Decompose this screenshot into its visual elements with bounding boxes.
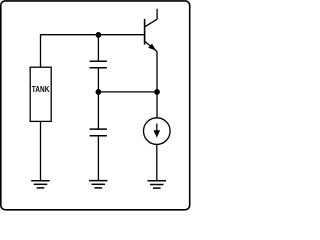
wire: current source to ground	[156, 144, 158, 180]
collector stub	[156, 9, 158, 19]
wire: tank bottom to ground	[40, 121, 42, 180]
transistor Q1	[145, 9, 158, 92]
wire: base rail from tank top corner to transistor base	[41, 35, 145, 67]
node: junction dot at base rail	[96, 32, 102, 38]
capacitor C1	[90, 61, 107, 67]
wire: C1 to middle junction	[97, 68, 99, 92]
ground (tank)	[31, 181, 50, 188]
wire: emitter rail (middle junction to emitter junction)	[98, 91, 157, 93]
current source I1	[144, 118, 171, 145]
wire: middle junction down to C2	[97, 92, 99, 129]
capacitor C2	[90, 129, 107, 136]
emitter arrowhead	[148, 44, 156, 51]
base bar	[144, 19, 146, 45]
svg-text:TANK: TANK	[32, 84, 50, 94]
border frame	[1, 1, 190, 210]
node: middle junction dot	[96, 89, 102, 95]
ground (current source)	[148, 181, 167, 188]
tank block X1	[30, 67, 51, 121]
emitter vertical wire	[156, 52, 158, 92]
node: emitter junction dot	[154, 89, 160, 95]
wire: C2 down to ground	[97, 136, 99, 181]
wire: junction down to C1	[97, 35, 99, 61]
collector diagonal	[145, 19, 158, 27]
ground (capacitor)	[89, 181, 108, 188]
emitter diagonal	[145, 41, 157, 51]
wire: emitter junction down to current source	[156, 92, 158, 118]
